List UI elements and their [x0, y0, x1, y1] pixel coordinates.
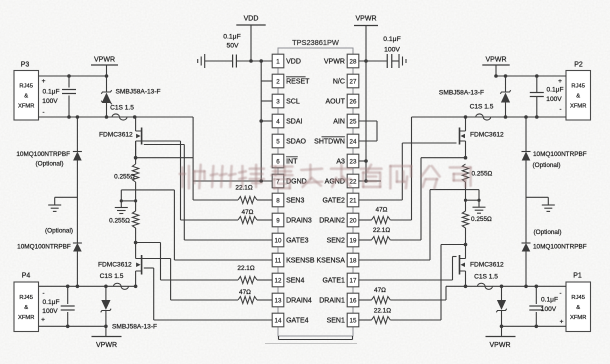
svg-text:INT: INT [286, 159, 298, 166]
svg-text:0.1μF: 0.1μF [43, 89, 60, 96]
svg-text:(Optional): (Optional) [35, 161, 63, 168]
svg-text:28: 28 [350, 58, 357, 65]
svg-text:-: - [560, 107, 562, 113]
svg-text:RJ45: RJ45 [571, 295, 585, 301]
svg-text:50V: 50V [226, 43, 239, 50]
svg-text:SMBJ58A-13-F: SMBJ58A-13-F [439, 90, 484, 97]
svg-text:N/C: N/C [333, 79, 345, 86]
svg-text:26: 26 [350, 98, 357, 105]
svg-text:0.1μF: 0.1μF [43, 299, 60, 306]
svg-text:P4: P4 [22, 273, 31, 280]
svg-text:11: 11 [275, 257, 282, 264]
svg-text:VPWR: VPWR [324, 59, 345, 66]
svg-text:47Ω: 47Ω [374, 287, 386, 294]
svg-text:0.1μF: 0.1μF [383, 36, 401, 43]
svg-text:0.255Ω: 0.255Ω [471, 216, 492, 223]
svg-text:FDMC3612: FDMC3612 [98, 262, 132, 269]
svg-text:10MQ100NTRPBF: 10MQ100NTRPBF [17, 244, 71, 251]
svg-text:0.1μF: 0.1μF [223, 34, 241, 41]
svg-text:(Optional): (Optional) [45, 228, 73, 235]
svg-text:DRAIN3: DRAIN3 [286, 218, 312, 225]
svg-text:DRAIN4: DRAIN4 [286, 298, 312, 305]
svg-text:XFMR: XFMR [18, 104, 34, 110]
svg-text:100V: 100V [546, 96, 562, 103]
svg-text:TPS23861PW: TPS23861PW [292, 38, 339, 47]
svg-text:VPWR: VPWR [486, 57, 507, 64]
svg-text:5: 5 [276, 138, 280, 145]
svg-text:25: 25 [350, 118, 357, 125]
svg-text:10: 10 [275, 237, 282, 244]
svg-text:22.1Ω: 22.1Ω [237, 265, 254, 272]
svg-text:GATE3: GATE3 [286, 238, 309, 245]
svg-text:KSENSA: KSENSA [316, 258, 345, 265]
svg-text:VPWR: VPWR [490, 342, 511, 349]
svg-text:GATE1: GATE1 [322, 278, 345, 285]
svg-text:+: + [41, 317, 45, 324]
svg-text:13: 13 [275, 297, 282, 304]
svg-text:&: & [24, 94, 28, 100]
svg-text:SEN3: SEN3 [286, 198, 304, 205]
svg-text:23: 23 [350, 158, 357, 165]
svg-text:DRAIN1: DRAIN1 [319, 298, 345, 305]
svg-text:-: - [560, 291, 562, 297]
svg-text:0.255Ω: 0.255Ω [114, 174, 135, 181]
svg-text:47Ω: 47Ω [242, 209, 254, 216]
svg-text:19: 19 [350, 237, 357, 244]
svg-text:9: 9 [276, 217, 280, 224]
svg-text:(Optional): (Optional) [533, 229, 561, 236]
svg-text:(Optional): (Optional) [532, 162, 560, 169]
svg-text:22.1Ω: 22.1Ω [235, 184, 252, 191]
svg-text:12: 12 [275, 277, 282, 284]
svg-text:XFMR: XFMR [570, 104, 586, 110]
svg-text:0.255Ω: 0.255Ω [109, 218, 130, 225]
svg-text:C1S 1.5: C1S 1.5 [110, 105, 134, 112]
svg-text:6: 6 [276, 158, 280, 165]
svg-text:10MQ100NTRPBF: 10MQ100NTRPBF [533, 151, 587, 158]
svg-text:FDMC3612: FDMC3612 [470, 132, 504, 139]
svg-text:100V: 100V [42, 98, 58, 105]
svg-text:SEN1: SEN1 [327, 318, 345, 325]
svg-text:16: 16 [350, 297, 357, 304]
svg-text:RJ45: RJ45 [571, 84, 585, 90]
svg-text:P3: P3 [21, 62, 30, 69]
svg-text:DRAIN2: DRAIN2 [319, 218, 345, 225]
svg-text:100V: 100V [541, 306, 557, 313]
svg-text:47Ω: 47Ω [239, 289, 251, 296]
svg-text:-: - [43, 110, 45, 116]
svg-text:20: 20 [350, 217, 357, 224]
svg-text:0.1μF: 0.1μF [541, 296, 558, 303]
svg-text:10MQ100NTRPBF: 10MQ100NTRPBF [16, 151, 70, 158]
svg-text:C1S 1.5: C1S 1.5 [100, 273, 124, 280]
svg-text:SDAI: SDAI [286, 119, 302, 126]
svg-text:21: 21 [350, 197, 357, 204]
svg-text:VDD: VDD [286, 59, 301, 66]
svg-text:VPWR: VPWR [356, 16, 377, 23]
svg-text:FDMC3612: FDMC3612 [470, 262, 504, 269]
svg-text:VPWR: VPWR [96, 342, 117, 349]
svg-text:AOUT: AOUT [325, 99, 345, 106]
svg-text:GATE4: GATE4 [286, 318, 309, 325]
svg-text:+: + [42, 78, 46, 85]
svg-text:14: 14 [275, 317, 282, 324]
svg-text:XFMR: XFMR [18, 315, 34, 321]
svg-text:18: 18 [350, 257, 357, 264]
svg-text:SCL: SCL [286, 99, 300, 106]
svg-text:AIN: AIN [333, 119, 345, 126]
svg-text:VDD: VDD [244, 16, 259, 23]
svg-text:P2: P2 [574, 62, 583, 69]
svg-text:0.255Ω: 0.255Ω [472, 171, 493, 178]
svg-text:P1: P1 [573, 273, 582, 280]
svg-text:0.1μF: 0.1μF [547, 87, 564, 94]
svg-text:RJ45: RJ45 [19, 84, 33, 90]
svg-text:RESET: RESET [286, 79, 310, 86]
svg-text:SDAO: SDAO [286, 139, 306, 146]
svg-text:SMBJ58A-13-F: SMBJ58A-13-F [112, 324, 157, 331]
svg-text:SEN2: SEN2 [327, 238, 345, 245]
svg-text:SEN4: SEN4 [286, 278, 304, 285]
svg-text:+: + [560, 319, 564, 326]
svg-text:KSENSB: KSENSB [286, 258, 315, 265]
svg-text:3: 3 [276, 98, 280, 105]
svg-text:10MQ100NTRPBF: 10MQ100NTRPBF [533, 244, 587, 251]
svg-text:SHTDWN: SHTDWN [314, 139, 345, 146]
svg-text:17: 17 [350, 277, 357, 284]
svg-text:FDMC3612: FDMC3612 [99, 132, 133, 139]
svg-text:&: & [576, 94, 580, 100]
svg-text:XFMR: XFMR [570, 315, 586, 321]
svg-text:&: & [24, 305, 28, 311]
svg-text:100V: 100V [384, 47, 400, 54]
svg-text:27: 27 [350, 78, 357, 85]
svg-text:VPWR: VPWR [94, 57, 115, 64]
svg-text:GATE2: GATE2 [322, 198, 345, 205]
svg-text:4: 4 [276, 118, 280, 125]
svg-text:22.1Ω: 22.1Ω [374, 308, 391, 315]
svg-text:&: & [576, 305, 580, 311]
svg-text:RJ45: RJ45 [19, 295, 33, 301]
svg-text:1: 1 [276, 58, 280, 65]
svg-text:47Ω: 47Ω [376, 207, 388, 214]
svg-text:24: 24 [350, 138, 357, 145]
svg-text:SMBJ58A-13-F: SMBJ58A-13-F [116, 89, 161, 96]
svg-text:22.1Ω: 22.1Ω [373, 227, 390, 234]
svg-text:2: 2 [276, 78, 280, 85]
svg-text:15: 15 [350, 317, 357, 324]
svg-text:C1S 1.5: C1S 1.5 [470, 104, 494, 111]
svg-text:C1S 1.5: C1S 1.5 [474, 274, 498, 281]
svg-text:8: 8 [276, 197, 280, 204]
svg-text:-: - [43, 291, 45, 297]
svg-text:100V: 100V [42, 308, 58, 315]
svg-text:+: + [558, 78, 562, 85]
